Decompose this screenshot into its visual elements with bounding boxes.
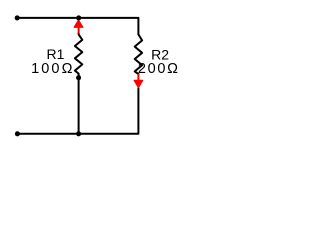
node dot junction bottom of R1 xyxy=(76,131,81,136)
wire top rail with corner into R2 branch xyxy=(17,18,138,35)
current arrow down at R2 bottom xyxy=(134,74,142,88)
current arrow up at R1 top xyxy=(74,20,83,33)
resistor R1 xyxy=(75,33,82,78)
wire R1 bottom lead xyxy=(78,78,80,134)
svg-text:R2: R2 xyxy=(151,46,169,62)
node dot junction top of R1 xyxy=(76,15,81,20)
resistor R2 xyxy=(135,34,142,74)
node dot bottom-left terminal xyxy=(15,131,20,136)
svg-text:100Ω: 100Ω xyxy=(31,61,74,77)
node dot top-left terminal xyxy=(15,15,20,20)
svg-text:200Ω: 200Ω xyxy=(138,61,180,77)
wire bottom rail with corner from R2 branch xyxy=(17,88,138,134)
svg-text:R1: R1 xyxy=(47,46,65,62)
node dot bottom of R1 xyxy=(76,75,81,80)
